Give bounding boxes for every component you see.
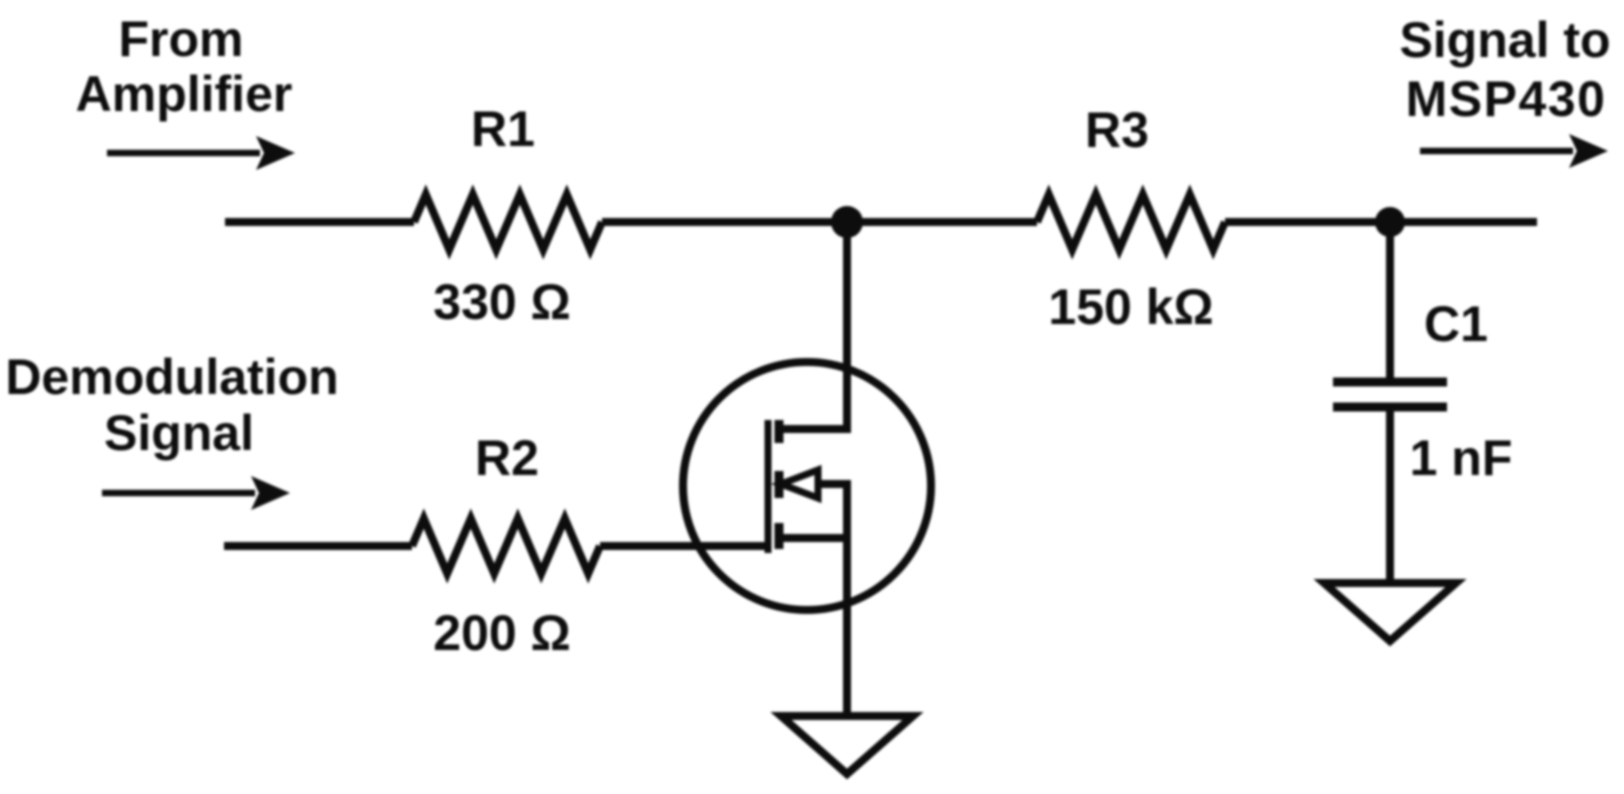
svg-text:Demodulation: Demodulation bbox=[5, 349, 338, 405]
svg-text:200 Ω: 200 Ω bbox=[433, 605, 570, 661]
svg-text:R2: R2 bbox=[475, 430, 539, 486]
wire: node B down to C1 bbox=[1386, 226, 1394, 382]
arrowhead: demodulation signal bbox=[251, 476, 290, 510]
transistor Q1 channel segment top bbox=[775, 420, 784, 443]
transistor Q1 channel segment bottom bbox=[775, 523, 784, 549]
arrow: signal to MSP430 bbox=[1420, 148, 1573, 155]
svg-text:1 nF: 1 nF bbox=[1410, 430, 1513, 486]
transistor Q1 body arrow bbox=[781, 470, 818, 498]
transistor Q1 body/source lead bbox=[820, 484, 847, 712]
wire: demodulation input to R2 bbox=[224, 542, 412, 550]
svg-text:MSP430: MSP430 bbox=[1406, 71, 1607, 127]
svg-text:330 Ω: 330 Ω bbox=[433, 274, 570, 330]
svg-text:Signal to: Signal to bbox=[1399, 12, 1610, 68]
svg-text:R1: R1 bbox=[471, 101, 535, 157]
ground (below Q1) bbox=[781, 716, 913, 774]
wire: R1 to node A bbox=[602, 218, 1037, 226]
arrowhead: signal to MSP430 bbox=[1569, 134, 1608, 168]
wire: R2 to gate of Q1 bbox=[600, 542, 765, 550]
svg-text:Signal: Signal bbox=[104, 405, 254, 461]
transistor Q1 source lead bbox=[783, 534, 847, 542]
svg-text:R3: R3 bbox=[1085, 102, 1149, 158]
arrow: from amplifier bbox=[107, 150, 260, 157]
arrow: demodulation signal bbox=[102, 490, 255, 497]
wire: R3 to node B and output bbox=[1225, 218, 1537, 226]
resistor R1 bbox=[414, 195, 602, 250]
transistor Q1 body circle bbox=[683, 362, 931, 610]
node A junction dot bbox=[831, 206, 863, 238]
capacitor C1 bottom plate bbox=[1333, 403, 1447, 412]
transistor Q1 channel segment middle bbox=[775, 471, 784, 498]
transistor Q1 drain lead bbox=[783, 226, 847, 429]
transistor Q1 gate bar bbox=[765, 420, 772, 553]
node B junction dot bbox=[1375, 207, 1405, 237]
svg-text:150 kΩ: 150 kΩ bbox=[1048, 279, 1213, 335]
resistor R3 bbox=[1037, 195, 1225, 250]
ground (below C1) bbox=[1324, 583, 1456, 641]
capacitor C1 top plate bbox=[1333, 378, 1447, 387]
svg-text:From: From bbox=[119, 11, 244, 67]
svg-text:Amplifier: Amplifier bbox=[76, 66, 293, 122]
arrowhead: from amplifier bbox=[256, 136, 295, 170]
wire: C1 to ground bbox=[1386, 407, 1394, 580]
svg-text:C1: C1 bbox=[1424, 296, 1488, 352]
wire: amplifier input to R1 bbox=[225, 218, 414, 226]
resistor R2 bbox=[412, 519, 600, 574]
